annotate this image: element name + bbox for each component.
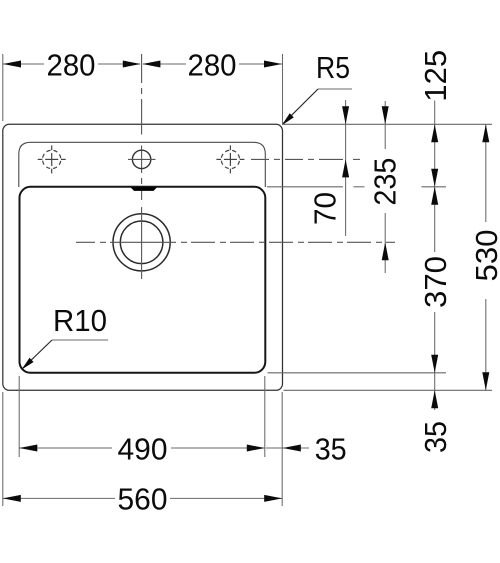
extension line bottom outer right — [281, 392, 283, 506]
svg-text:235: 235 — [368, 158, 403, 206]
centerline vertical — [141, 54, 143, 279]
extension line top left — [2, 54, 4, 121]
dimension 370 — [418, 187, 453, 373]
overflow mark — [131, 187, 158, 191]
tap knockout right — [216, 145, 244, 173]
svg-text:490: 490 — [118, 431, 168, 466]
dimension 280 right — [142, 47, 282, 82]
tap hole center — [128, 150, 156, 168]
drain outer circle — [113, 214, 170, 271]
bowl 490x370 — [20, 187, 266, 373]
extension line bowl bottom right — [268, 372, 447, 374]
label R10 — [19, 303, 108, 372]
dimension 490 — [19, 431, 264, 466]
sink outer edge 560x530 — [3, 124, 283, 390]
dimension 35 right — [418, 373, 453, 453]
dimension 125 — [418, 50, 453, 187]
svg-text:280: 280 — [47, 47, 96, 82]
svg-text:35: 35 — [315, 431, 347, 466]
svg-text:560: 560 — [118, 482, 168, 517]
extension line bottom outer left — [2, 392, 4, 506]
tap centerline right extension — [251, 158, 360, 160]
extension line bowl left bottom — [18, 376, 20, 457]
extension line bowl top right — [267, 186, 446, 188]
svg-text:R10: R10 — [53, 303, 107, 338]
sink rim inner edge — [19, 142, 265, 187]
dimension 280 left — [3, 47, 141, 82]
extension line right of bottom edge — [284, 389, 493, 391]
drain inner circle — [120, 221, 163, 264]
dimension 530 — [469, 124, 500, 390]
extension line bowl right bottom — [264, 376, 266, 457]
tap knockout left — [38, 145, 66, 173]
svg-text:530: 530 — [469, 230, 500, 282]
extension line right of top edge — [283, 123, 493, 125]
svg-text:370: 370 — [418, 256, 453, 308]
extension line top right — [282, 54, 284, 124]
svg-text:R5: R5 — [316, 50, 350, 85]
svg-text:280: 280 — [188, 47, 237, 82]
svg-text:70: 70 — [307, 192, 342, 225]
dimension 560 — [3, 482, 282, 517]
svg-text:125: 125 — [418, 50, 453, 102]
svg-text:35: 35 — [418, 421, 453, 453]
dimension 35 bottom — [266, 431, 347, 466]
dimension 70 — [307, 100, 349, 236]
label R5 — [280, 50, 352, 127]
drain centerline horizontal — [76, 241, 395, 243]
dimension 235 — [368, 101, 403, 273]
